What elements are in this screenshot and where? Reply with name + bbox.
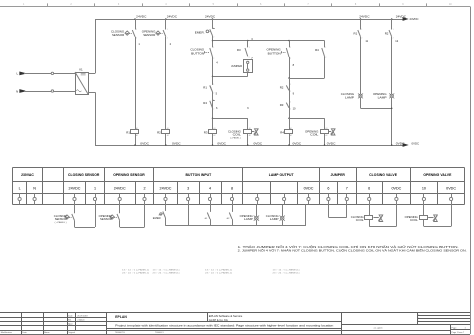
svg-text:COIL: COIL	[356, 218, 364, 222]
svg-text:JUMPER: JUMPER	[330, 173, 345, 177]
svg-text:1: 1	[393, 29, 394, 31]
svg-text:BUTTON: BUTTON	[268, 51, 281, 55]
svg-text:2: 2	[213, 37, 214, 39]
svg-text:EMER.: EMER.	[195, 30, 205, 34]
svg-text:1: 1	[290, 101, 291, 103]
svg-text:0VDC: 0VDC	[412, 142, 420, 146]
svg-text:6: 6	[368, 187, 370, 191]
svg-text:R4: R4	[280, 130, 284, 134]
svg-text:24VDC: 24VDC	[160, 187, 172, 191]
svg-text:GmbH & Co. KG: GmbH & Co. KG	[209, 319, 228, 322]
svg-text:1: 1	[213, 84, 214, 86]
svg-text:=C. gate1: =C. gate1	[374, 327, 384, 330]
svg-text:Modification: Modification	[1, 331, 13, 334]
svg-text:N: N	[33, 187, 36, 191]
svg-text:R4: R4	[203, 101, 207, 105]
svg-text:0VDC: 0VDC	[293, 141, 302, 145]
svg-text:2: 2	[290, 91, 291, 93]
svg-text:Appr: Appr	[68, 323, 73, 326]
svg-text:0VDC: 0VDC	[140, 141, 149, 145]
svg-text:13 ⌐ 14 ⌐1 (+PANEL1): 13 ⌐ 14 ⌐1 (+PANEL1)	[153, 269, 180, 272]
svg-text:R3: R3	[237, 48, 241, 52]
svg-text:( +PANEL ): ( +PANEL )	[230, 137, 241, 140]
svg-text:LAMP OUTPUT: LAMP OUTPUT	[269, 173, 295, 177]
svg-text:OPENING VALVE: OPENING VALVE	[423, 173, 452, 177]
svg-text:26.09.2018: 26.09.2018	[77, 316, 88, 318]
svg-text:24VDC: 24VDC	[410, 17, 419, 21]
svg-text:R1: R1	[203, 85, 207, 89]
svg-text:2: 2	[136, 38, 137, 40]
svg-text:COIL: COIL	[233, 133, 242, 137]
svg-text:CLOSING SENSOR: CLOSING SENSOR	[68, 173, 100, 177]
svg-text:1: 1	[361, 29, 362, 31]
svg-text:13 ⌐ 14 ⌐1 (+PANEL1): 13 ⌐ 14 ⌐1 (+PANEL1)	[205, 269, 232, 272]
svg-text:1: 1	[213, 28, 214, 30]
svg-text:Original: Original	[68, 331, 76, 334]
svg-text:LAMP: LAMP	[378, 95, 387, 99]
svg-text:Name: Name	[44, 332, 50, 334]
svg-text:SENSOR: SENSOR	[112, 33, 124, 37]
svg-text:2: 2	[213, 93, 214, 95]
svg-text:2: 2	[325, 57, 326, 59]
svg-text:JUMPER: JUMPER	[231, 64, 242, 68]
svg-text:13 ⌐ 14 ⌐1 (+PANEL1): 13 ⌐ 14 ⌐1 (+PANEL1)	[273, 269, 300, 272]
svg-text:2: 2	[393, 38, 394, 40]
svg-text:L: L	[19, 187, 21, 191]
svg-text:24VDC: 24VDC	[396, 14, 406, 18]
svg-text:R1: R1	[353, 32, 357, 36]
svg-text:0VDC: 0VDC	[391, 187, 401, 191]
svg-text:R3: R3	[280, 103, 284, 107]
svg-text:0VDC: 0VDC	[217, 141, 226, 145]
svg-text:1: 1	[325, 47, 326, 49]
svg-text:0VDC: 0VDC	[327, 141, 336, 145]
svg-text:23 ⌐ 24 ⌐1 (+PANEL1): 23 ⌐ 24 ⌐1 (+PANEL1)	[273, 272, 300, 275]
svg-text:1: 1	[249, 47, 250, 49]
svg-text:10: 10	[422, 187, 426, 191]
svg-text:EMER.: EMER.	[153, 218, 162, 220]
svg-text:2: 2	[213, 109, 214, 111]
svg-text:Project template with identifi: Project template with identification str…	[115, 324, 334, 327]
svg-text:R2: R2	[157, 130, 161, 134]
svg-text:23 ⌐ 24 ⌐1 (+PANEL1): 23 ⌐ 24 ⌐1 (+PANEL1)	[153, 272, 180, 275]
svg-text:2: 2	[167, 38, 168, 40]
svg-text:2: 2	[290, 58, 291, 60]
svg-text:LAMP: LAMP	[270, 217, 279, 221]
svg-text:0VDC: 0VDC	[304, 187, 314, 191]
svg-text:4: 4	[209, 187, 211, 191]
svg-text:R2: R2	[385, 32, 389, 36]
svg-text:2. JUMPER NỐI 4 VỚI 7: NHẤN NÚ: 2. JUMPER NỐI 4 VỚI 7: NHẤN NÚT CLOSING …	[238, 250, 468, 253]
svg-text:13 ⌐ 14 ⌐1 (+PANEL1): 13 ⌐ 14 ⌐1 (+PANEL1)	[122, 269, 149, 272]
svg-text:( +PANEL ): ( +PANEL )	[55, 221, 67, 224]
svg-text:24VDC: 24VDC	[205, 14, 215, 18]
svg-text:7000007 E: 7000007 E	[115, 332, 126, 334]
svg-text:2: 2	[249, 57, 250, 59]
svg-text:Page 1 from 7: Page 1 from 7	[452, 332, 465, 334]
svg-text:3: 3	[187, 187, 189, 191]
svg-text:2: 2	[361, 38, 362, 40]
svg-text:6: 6	[327, 187, 329, 191]
svg-text:1: 1	[136, 29, 137, 31]
svg-text:2: 2	[290, 109, 291, 111]
svg-text:1: 1	[290, 84, 291, 86]
svg-text:0VDC: 0VDC	[254, 141, 263, 145]
svg-text:8: 8	[231, 187, 233, 191]
svg-text:LAMP: LAMP	[244, 217, 253, 221]
svg-text:24VDC: 24VDC	[114, 187, 126, 191]
svg-text:2: 2	[213, 58, 214, 60]
svg-text:V1: V1	[79, 67, 83, 71]
svg-text:COIL: COIL	[410, 218, 418, 222]
svg-text:BUTTON INPUT: BUTTON INPUT	[186, 173, 213, 177]
svg-text:1: 1	[94, 187, 96, 191]
svg-text:N: N	[16, 89, 18, 93]
svg-text:2: 2	[143, 187, 145, 191]
svg-text:0VDC: 0VDC	[172, 141, 181, 145]
svg-text:EPLAN Software & Service: EPLAN Software & Service	[209, 315, 243, 318]
svg-text:R4: R4	[315, 48, 319, 52]
svg-text:SENSOR: SENSOR	[100, 217, 112, 221]
svg-text:230VAC: 230VAC	[21, 173, 34, 177]
svg-text:SENSOR: SENSOR	[143, 33, 155, 37]
svg-text:1: 1	[213, 47, 214, 49]
svg-text:CLOSING VALVE: CLOSING VALVE	[369, 173, 398, 177]
svg-text:23 ⌐ 24 ⌐1 (+PANEL1): 23 ⌐ 24 ⌐1 (+PANEL1)	[122, 272, 149, 275]
svg-text:1: 1	[213, 100, 214, 102]
svg-text:1: 1	[290, 47, 291, 49]
svg-text:EPLAN: EPLAN	[115, 315, 127, 319]
svg-text:COIL: COIL	[310, 133, 319, 137]
svg-text:1: 1	[167, 29, 168, 31]
svg-text:7: 7	[346, 187, 348, 191]
svg-text:Page: Page	[452, 327, 458, 329]
svg-text:24VDC: 24VDC	[359, 14, 369, 18]
svg-text:24VDC: 24VDC	[136, 14, 146, 18]
svg-text:0VDC: 0VDC	[396, 141, 405, 145]
svg-text:R1: R1	[126, 130, 130, 134]
svg-text:OPENING SENSOR: OPENING SENSOR	[113, 173, 145, 177]
svg-text:J. Adam: J. Adam	[77, 319, 85, 322]
svg-text:BUTTON: BUTTON	[191, 51, 204, 55]
svg-text:R2: R2	[280, 85, 284, 89]
svg-text:R3: R3	[204, 130, 208, 134]
svg-text:23 ⌐ 24 ⌐1 (+PANEL1): 23 ⌐ 24 ⌐1 (+PANEL1)	[205, 272, 232, 275]
svg-text:SENSOR: SENSOR	[55, 217, 67, 221]
svg-text:LAMP: LAMP	[345, 95, 354, 99]
svg-text:0VDC: 0VDC	[446, 187, 456, 191]
svg-text:700000 9: 700000 9	[155, 332, 165, 334]
svg-text:24VDC: 24VDC	[167, 14, 177, 18]
svg-text:Ed.: Ed.	[68, 320, 72, 322]
svg-text:24VDC: 24VDC	[69, 187, 81, 191]
